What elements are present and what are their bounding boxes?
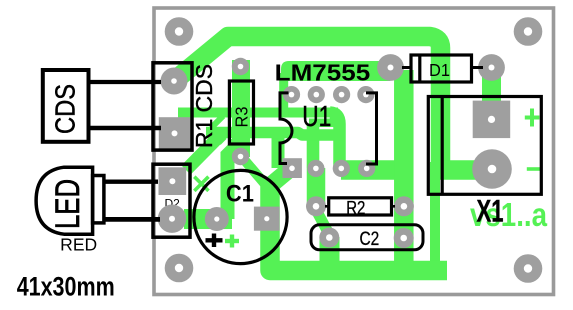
wire LED square pad diagonal to A2 [186, 133, 223, 170]
svg-text:R3: R3 [232, 107, 252, 128]
capacitor C2 outline [311, 225, 423, 250]
wire right vertical tail to bottom band [430, 162, 440, 271]
U1 pin8 [283, 86, 300, 103]
svg-text:LM7555: LM7555 [275, 60, 371, 86]
R2 pad left [306, 196, 326, 216]
capacitor C1 outline [194, 170, 287, 263]
mounting hole bottom-right [514, 254, 543, 283]
wire S-bend return to pin2 [309, 119, 342, 128]
wire H2 band to D1 left pad [281, 61, 390, 81]
svg-text:R1 CDS: R1 CDS [191, 64, 217, 148]
CDS pad 1 [161, 68, 188, 95]
op-amp U1 outline right bracket [366, 93, 377, 164]
node X mark [194, 177, 208, 191]
U1 pin1 square [283, 158, 302, 178]
connector X1 outline [428, 97, 541, 195]
wire A2 band [206, 133, 343, 136]
wire LED lead bottom [104, 217, 160, 222]
board outline [154, 8, 554, 295]
mounting hole top-right [514, 17, 543, 46]
U1 pin5 [357, 86, 374, 103]
connector header outline LED [153, 164, 190, 237]
wire CDS round pad to top band [174, 37, 441, 171]
LED pad 1 square [159, 167, 187, 195]
wire CDS lead bottom [88, 126, 161, 130]
U1 pin4 [358, 160, 375, 177]
wire R2 lead left [325, 205, 330, 208]
wire C1 square pad to U1 pin1 [272, 169, 290, 184]
LED pad 2 [158, 205, 186, 233]
svg-text:R2: R2 [346, 197, 365, 218]
wire A1 band [178, 108, 338, 118]
wire U1 pin2 to R2 left [307, 168, 326, 206]
X1 minus copper mark [527, 167, 541, 171]
X1 pad minus [472, 149, 512, 189]
U1 pin6 [333, 86, 350, 103]
wire U1 pin3 to right vertical [341, 160, 404, 180]
wire A1-A2 bridge [211, 116, 223, 128]
R2 pad right [394, 196, 414, 216]
resistor R2 outline [329, 198, 392, 215]
wire CDS square pad diagonal to C1 round pad [221, 139, 235, 219]
mounting hole top-left [165, 17, 194, 46]
U1 pin2 [307, 160, 324, 177]
wire S-bend down to U1 pin3 [330, 113, 340, 170]
diode D1 outline [411, 55, 472, 82]
svg-text:CDS: CDS [50, 84, 81, 134]
R3 pad bottom [232, 148, 249, 165]
svg-text:D1: D1 [429, 60, 450, 80]
wire LED lead top [104, 179, 158, 183]
pad drill holes [169, 27, 532, 272]
svg-text:X1: X1 [477, 193, 504, 229]
connector CDS box [43, 70, 89, 142]
wire C2 left pad to bottom band [320, 237, 340, 263]
U1 pin7 [308, 86, 325, 103]
svg-text:RED: RED [60, 234, 97, 254]
wire D1 left vertical to R2/C2 right and bottom band [394, 70, 414, 265]
CDS pad 2 square [159, 117, 191, 149]
mounting hole bottom-left [165, 254, 194, 283]
svg-text:U1: U1 [302, 101, 331, 133]
X1 pad plus square [473, 101, 511, 139]
diode D1 cathode band [418, 55, 421, 82]
wire R2 left to C2 left [315, 208, 329, 234]
wire R3 bottom pad to C1 square pad [241, 156, 276, 197]
wire LED round pad to C1 round pad [184, 209, 232, 229]
svg-text:LED: LED [49, 179, 87, 229]
svg-text:C1: C1 [226, 180, 254, 207]
U1 pin3 [333, 160, 350, 177]
connector header outline CDS [153, 63, 192, 150]
resistor R3 outline [229, 81, 253, 144]
C1 pad plus square [254, 207, 280, 231]
D1 pad right [478, 54, 505, 81]
C2 pad right [394, 228, 414, 248]
white gap stripe [193, 140, 230, 177]
wire W10 H2 to A1 [279, 73, 288, 117]
svg-text:C2: C2 [360, 229, 380, 250]
wire A2 band down to U1 pin1 [272, 130, 285, 168]
wire U1 pin2 from S-bend return [307, 124, 320, 168]
wire CDS lead top [88, 80, 161, 84]
C2 pad left [319, 228, 339, 248]
wire D1 lead right [472, 66, 484, 69]
wire R2 lead right [391, 205, 395, 208]
C1 plus copper mark [225, 235, 239, 248]
svg-text:41x30mm: 41x30mm [17, 273, 115, 302]
wire D1 lead left [402, 66, 411, 69]
X1 plus copper mark [525, 109, 540, 127]
D1 pad left [377, 54, 404, 81]
LED D2 body [36, 167, 93, 234]
connector X1 inner line [441, 96, 444, 195]
wire under R3 body [232, 60, 250, 157]
wire D1 right pad to X1 plus pad [482, 66, 501, 103]
R3 pad top [232, 58, 249, 75]
LED collar [93, 176, 104, 223]
C1 plus silk mark [206, 234, 223, 248]
wire bottom band [270, 184, 447, 271]
C1 pad minus [205, 207, 229, 231]
wire stub to X1 minus pad [439, 160, 493, 180]
op-amp U1 outline left bracket [280, 93, 292, 164]
